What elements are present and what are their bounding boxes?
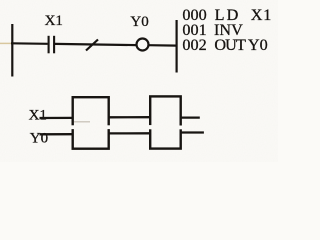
svg-text:Y0: Y0 [130, 14, 148, 30]
svg-text:X1: X1 [29, 108, 47, 124]
svg-text:X1: X1 [251, 6, 272, 24]
svg-text:002: 002 [182, 36, 206, 54]
svg-text:Y0: Y0 [30, 131, 48, 147]
svg-text:Y0: Y0 [248, 36, 268, 54]
svg-text:OUT: OUT [214, 36, 246, 54]
svg-text:X1: X1 [45, 13, 63, 29]
